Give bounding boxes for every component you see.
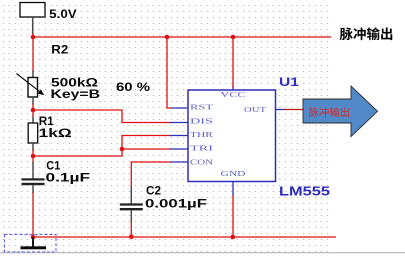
svg-text:R2: R2 xyxy=(51,43,68,57)
wire VCC pin to rail xyxy=(232,37,234,87)
svg-text:LM555: LM555 xyxy=(279,183,330,198)
node A junction xyxy=(31,108,36,113)
node ground junction xyxy=(31,235,36,240)
svg-text:0.001µF: 0.001µF xyxy=(145,197,207,211)
svg-text:U1: U1 xyxy=(279,77,300,89)
wire C2 to ground rail xyxy=(130,221,132,238)
svg-text:DIS: DIS xyxy=(190,119,213,126)
node junction RST drop xyxy=(165,35,170,40)
node GND pin junction xyxy=(231,235,236,240)
svg-text:GND: GND xyxy=(221,171,246,178)
svg-text:C2: C2 xyxy=(146,184,161,198)
selection box xyxy=(5,235,57,253)
capacitor C2 xyxy=(120,188,143,222)
voltage source V1 xyxy=(20,3,45,35)
wire V+ to R2 xyxy=(32,33,34,72)
wire R2 to node A xyxy=(32,104,34,111)
wire C1 to ground rail xyxy=(32,192,34,237)
label pulse output (red, on arrow) xyxy=(309,107,349,117)
ground symbol xyxy=(21,237,47,249)
node C2 junction xyxy=(129,235,134,240)
label pulse output (black, top right) xyxy=(340,27,393,40)
svg-text:RST: RST xyxy=(190,105,215,112)
output arrow xyxy=(303,86,378,137)
wire CON to C2 xyxy=(131,162,170,189)
wire GND pin to ground rail xyxy=(232,195,234,237)
svg-text:VCC: VCC xyxy=(221,92,247,99)
svg-text:THR: THR xyxy=(190,132,214,139)
wire junction to TRI xyxy=(122,148,171,150)
wire VCC top rail xyxy=(33,36,331,38)
IC U1 LM555 xyxy=(170,86,285,197)
svg-text:OUT: OUT xyxy=(244,107,267,114)
node junction V1/rail xyxy=(31,35,36,40)
resistor R1 xyxy=(28,110,38,156)
svg-text:Key=B: Key=B xyxy=(51,87,101,101)
svg-text:5.0V: 5.0V xyxy=(49,7,76,21)
wire OUT to arrow xyxy=(284,109,304,111)
svg-text:1kΩ: 1kΩ xyxy=(39,126,73,140)
node B junction xyxy=(31,154,36,159)
potentiometer R2 xyxy=(17,71,45,105)
svg-text:CON: CON xyxy=(190,159,213,166)
capacitor C1 xyxy=(22,156,45,193)
wire ground rail xyxy=(33,236,336,238)
wire RST to rail xyxy=(167,37,171,108)
wire node A to DIS xyxy=(33,110,171,123)
svg-text:0.1µF: 0.1µF xyxy=(46,171,91,185)
svg-text:60 %: 60 % xyxy=(116,80,150,94)
node THR/TRI junction xyxy=(120,147,125,152)
svg-text:TRI: TRI xyxy=(190,146,215,153)
wire node B to THR xyxy=(33,136,171,157)
node junction VCC pin drop xyxy=(231,35,236,40)
sheet border line xyxy=(0,252,405,254)
